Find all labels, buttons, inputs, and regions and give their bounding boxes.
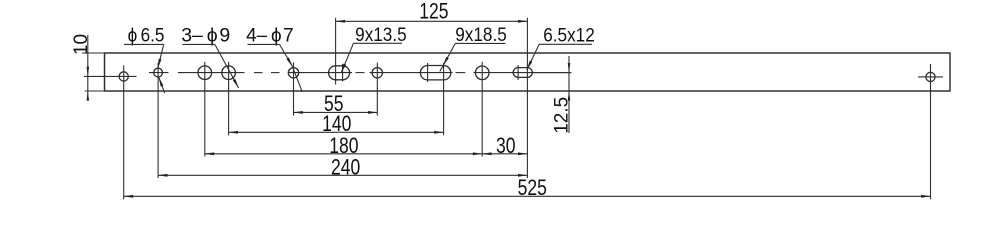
- label 9x18.5 underline: [455, 42, 505, 44]
- hole H1 horizontal crosshair / 10-dim extension: [84, 75, 137, 77]
- svg-text:3– ϕ 9: 3– ϕ 9: [181, 25, 230, 47]
- hole H1 left end: [119, 72, 128, 81]
- svg-text:30: 30: [496, 134, 516, 159]
- hole H8 vertical crosshair / 525 extension: [930, 64, 932, 199]
- slot S1 right arc center line: [342, 64, 344, 82]
- svg-text:525: 525: [518, 176, 547, 201]
- slot S2 9x18.5: [420, 66, 450, 80]
- hole H5 (phi7): [288, 68, 298, 78]
- hole H2 vertical crosshair / 240 extension: [157, 63, 159, 178]
- slot S3 right arc center line / 125 + 240 extension: [526, 18, 528, 178]
- svg-text:ϕ 6.5: ϕ 6.5: [128, 24, 165, 46]
- bottom edge extension for 10 dim: [85, 90, 105, 92]
- slot S2 left arc center line: [427, 63, 429, 82]
- dim 12.5 arrow up: [568, 91, 571, 101]
- dim 10 arrow down: [87, 67, 90, 77]
- label phi6.5 leader tail: [159, 77, 165, 93]
- label 9x13.5 leader: [341, 43, 353, 73]
- label 4-phi7 leader tail: [292, 66, 302, 92]
- dim 10 arrow up: [87, 91, 90, 101]
- hole H7 vertical crosshair / 180-30 extension: [481, 62, 483, 157]
- hole H4 (phi9): [222, 66, 236, 80]
- dim 55: [294, 111, 378, 113]
- dim 180: [205, 153, 482, 155]
- slot S2 right arc center line / 140 extension: [443, 63, 445, 135]
- dim 12.5 arrow down: [568, 63, 571, 73]
- hole H4 vertical crosshair / 140 extension: [228, 62, 230, 136]
- label 3-phi9 leader: [215, 44, 239, 88]
- label 3-phi9 underline: [182, 43, 215, 45]
- hole H6 vertical crosshair / 55 extension: [376, 63, 378, 116]
- svg-text:125: 125: [419, 0, 448, 24]
- label 9x13.5 underline: [353, 42, 402, 44]
- label 9x18.5 leader tail: [440, 66, 443, 72]
- hole H1 vertical crosshair / 525 extension: [123, 66, 125, 200]
- label 9x18.5 leader: [443, 43, 455, 65]
- plate outline: [105, 53, 951, 91]
- svg-text:9x18.5: 9x18.5: [455, 23, 507, 45]
- hole H8 horizontal crosshair: [918, 76, 943, 78]
- label phi6.5 underline: [124, 43, 164, 45]
- svg-text:9x13.5: 9x13.5: [355, 23, 407, 45]
- label 4-phi7 leader with mid arrow: [280, 44, 293, 66]
- svg-text:10: 10: [71, 34, 92, 55]
- dim 125: [336, 20, 528, 22]
- top edge extension for 10 dim: [82, 52, 105, 54]
- label 4-phi7 underline: [248, 43, 280, 45]
- dim 140: [229, 131, 444, 133]
- label phi6.5 leader: [158, 44, 164, 68]
- hole H3 vertical crosshair / 180 extension: [204, 62, 206, 157]
- hole H6 (phi7): [372, 68, 382, 78]
- hole H5 vertical crosshair / 55 extension: [293, 63, 295, 116]
- hole H3 (phi9): [198, 66, 212, 80]
- hole H7 (phi9): [475, 66, 489, 80]
- dim 240: [158, 174, 527, 176]
- svg-text:4– ϕ 7: 4– ϕ 7: [246, 25, 293, 46]
- slot S1 9x13.5: [329, 66, 350, 80]
- dim 12.5 line: [568, 56, 570, 133]
- slot S3 6.5x12: [513, 68, 532, 78]
- hole H8 right end: [926, 72, 935, 81]
- label 6.5x12 underline: [539, 43, 592, 45]
- svg-text:240: 240: [331, 155, 360, 180]
- hole H2 (phi6.5): [154, 68, 163, 77]
- dim 525: [124, 195, 931, 197]
- svg-text:6.5x12: 6.5x12: [543, 24, 595, 46]
- centerline (dashed, y=72.6): [149, 72, 572, 74]
- dim 10 line: [87, 35, 89, 101]
- svg-text:12.5: 12.5: [552, 97, 573, 134]
- slot S1 left arc center line / 125 extension: [335, 18, 337, 85]
- label 6.5x12 leader: [527, 44, 539, 69]
- dim 30: [482, 153, 527, 155]
- slot S3 left arc center line: [517, 65, 519, 80]
- slot S3 centerline extension right (12.5 dim reference): [532, 72, 571, 74]
